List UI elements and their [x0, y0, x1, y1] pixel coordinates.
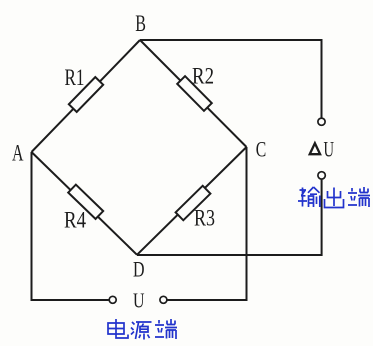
wire C-D	[137, 147, 247, 255]
svg-text:U: U	[324, 137, 335, 162]
wire D-A	[32, 152, 138, 255]
svg-text:A: A	[12, 140, 24, 165]
svg-text:R1: R1	[65, 65, 85, 90]
char shu 输	[298, 187, 320, 207]
char yuan 源	[131, 322, 152, 340]
resistor R1	[69, 77, 103, 112]
char duan 端	[348, 187, 370, 207]
svg-text:D: D	[133, 256, 145, 281]
power terminal circle right	[160, 296, 167, 303]
wire B-C	[140, 40, 247, 147]
svg-text:C: C	[256, 136, 266, 161]
output terminal circle top	[318, 118, 325, 125]
wire B to output top terminal	[140, 40, 322, 118]
wire power right terminal to C	[167, 147, 246, 300]
wire output bottom terminal to D	[137, 180, 322, 255]
char duan 端	[155, 319, 177, 339]
svg-text:U: U	[133, 288, 145, 312]
power terminal circle left	[109, 296, 116, 303]
resistor R2	[177, 76, 212, 111]
blue text 输出端 (output terminal)	[298, 187, 370, 208]
resistor R3	[176, 186, 211, 220]
svg-text:R3: R3	[194, 205, 215, 230]
wire A-B	[32, 40, 141, 152]
resistor R4	[68, 185, 103, 219]
char chu 出	[325, 188, 344, 208]
label delta of deltaU	[310, 143, 320, 154]
svg-text:R2: R2	[192, 63, 214, 88]
wire A to power left terminal	[32, 152, 109, 300]
svg-text:R4: R4	[64, 207, 86, 232]
svg-text:B: B	[135, 11, 146, 36]
char dian 电	[108, 319, 128, 338]
blue text 电源端 (power terminal)	[108, 319, 177, 340]
output terminal circle bottom	[318, 172, 325, 179]
